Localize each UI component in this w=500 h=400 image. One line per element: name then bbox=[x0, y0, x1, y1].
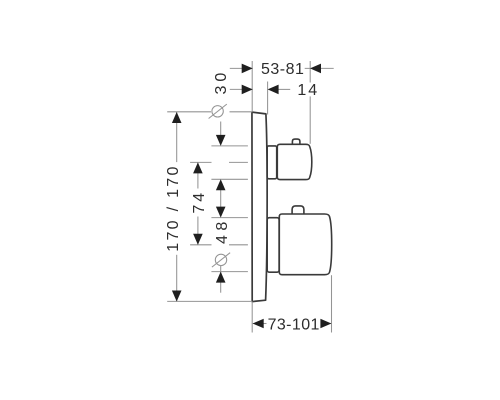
arrow 74 top (points up) bbox=[193, 162, 203, 173]
svg-text:14: 14 bbox=[297, 82, 319, 99]
svg-text:74: 74 bbox=[191, 190, 208, 214]
upper knob neck bbox=[267, 146, 277, 179]
ext line lower knob top bbox=[211, 217, 248, 219]
lower knob neck bbox=[267, 218, 279, 273]
arrow 73-101 right (points right) bbox=[320, 319, 331, 329]
arrow 170 top (points up) bbox=[172, 112, 182, 123]
ext line lower knob axis left bbox=[190, 244, 211, 246]
lower knob body bbox=[279, 214, 331, 275]
dia30 line seg below knob bbox=[220, 183, 222, 207]
dim 73-101 left segment bbox=[253, 323, 267, 325]
arrow 14 left (points right) bbox=[242, 85, 253, 95]
dim 14 middle segment bbox=[279, 88, 291, 90]
dim 74 line upper segment bbox=[197, 163, 199, 189]
dia30 line seg below symbol bbox=[220, 122, 222, 141]
arrow dia48 top (points down, tip at sleeve top) bbox=[216, 207, 226, 218]
dia48 bottom tail bbox=[220, 278, 222, 293]
dim 53-81 right segment bbox=[305, 67, 334, 69]
ext line upper knob axis left bbox=[190, 161, 211, 163]
dim 14 left tail bbox=[230, 88, 253, 90]
dim 53-81 left tail bbox=[230, 67, 253, 69]
arrow 53-81 right (points left) bbox=[310, 64, 321, 74]
thin dimension / extension lines bbox=[167, 61, 334, 333]
arrow 74 bottom (points down) bbox=[193, 234, 203, 245]
ext line upper knob axis right bbox=[229, 161, 248, 163]
vert ext line lower knob front (x=331.5) bbox=[331, 275, 333, 332]
ext line bottom of plate bbox=[167, 300, 252, 302]
vert ext line upper knob front, lower segment bbox=[309, 96, 311, 143]
ext line top of plate right part bbox=[230, 111, 253, 113]
upper knob tab bbox=[292, 139, 300, 145]
escutcheon plate (side view) bbox=[252, 112, 267, 302]
dia30 symbol slash bbox=[209, 104, 227, 118]
dim 74 line lower segment bbox=[197, 217, 199, 245]
vert ext line plate front face (x=267.6) bbox=[267, 82, 269, 115]
ext line top of plate (y=111.8) left part bbox=[167, 111, 211, 113]
arrow 14 right (points left) bbox=[268, 85, 279, 95]
svg-text:48: 48 bbox=[214, 217, 231, 244]
arrow dia30 bottom (points up, tip at knob bottom) bbox=[216, 179, 226, 190]
upper knob body bbox=[277, 144, 312, 179]
dia48 line seg above bottom arrow bbox=[220, 266, 222, 274]
dia30 symbol circle bbox=[212, 106, 223, 117]
dim 170/170 line upper segment bbox=[176, 112, 178, 162]
arrow dia30 top (points down, tip at knob top) bbox=[216, 135, 226, 146]
svg-text:53-81: 53-81 bbox=[261, 61, 304, 78]
arrow dia48 bottom (points up, tip at sleeve bottom) bbox=[216, 272, 226, 283]
arrowheads bbox=[172, 64, 332, 329]
dimension texts bbox=[165, 61, 320, 333]
svg-text:30: 30 bbox=[213, 69, 230, 95]
dim 73-101 right segment bbox=[321, 323, 332, 325]
ext line lower knob bottom bbox=[211, 271, 248, 273]
ext line upper knob top bbox=[211, 145, 248, 147]
vert ext line upper knob front, upper segment (x=310.2) bbox=[309, 61, 311, 83]
svg-text:73-101: 73-101 bbox=[268, 316, 320, 333]
vert ext line wall face bottom (x=252.2) bbox=[251, 302, 253, 333]
dia48 symbol slash bbox=[212, 253, 230, 267]
svg-text:170 / 170: 170 / 170 bbox=[165, 164, 182, 251]
arrow 170 bottom (points down) bbox=[172, 291, 182, 302]
ext line upper knob bottom bbox=[211, 178, 248, 180]
lower knob tab bbox=[292, 206, 304, 215]
arrow 73-101 left (points left) bbox=[253, 319, 264, 329]
dia48 symbol circle bbox=[215, 254, 226, 265]
dim 170/170 line lower segment bbox=[176, 255, 178, 302]
vert ext line wall face top (x=252.2) bbox=[251, 61, 253, 112]
arrow 53-81 left (points right) bbox=[242, 64, 253, 74]
ext line lower knob axis right bbox=[229, 244, 248, 246]
